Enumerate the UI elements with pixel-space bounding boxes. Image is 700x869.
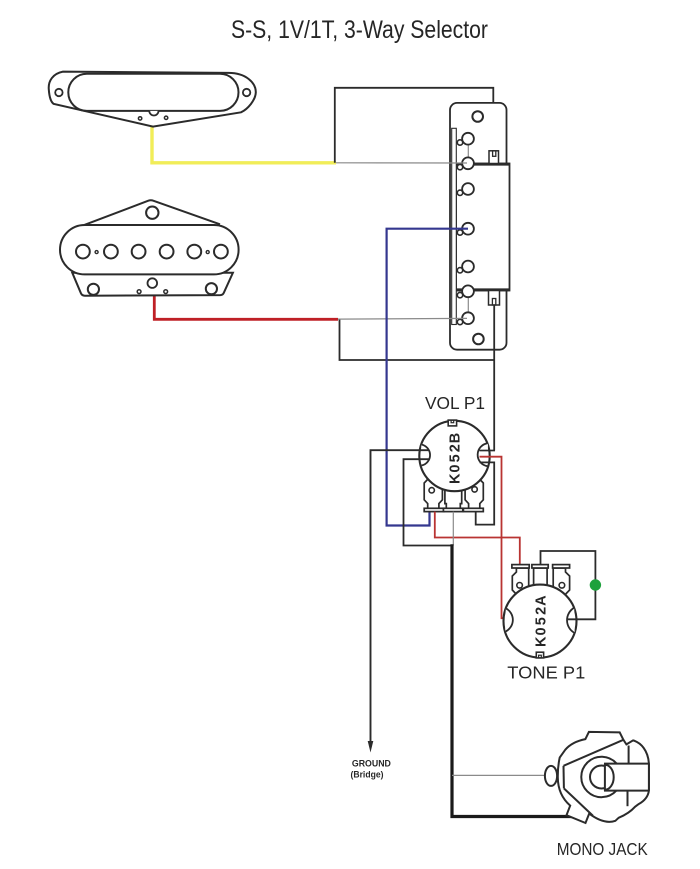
svg-text:K: K	[534, 636, 550, 647]
bridge pickup pole 6	[214, 245, 228, 259]
bridge pickup screw hole left	[88, 284, 99, 295]
jack inner wedge bottom diagonal	[564, 788, 593, 815]
neck pickup center notch	[149, 111, 158, 116]
TONE pot lug left tip bar	[512, 565, 529, 568]
jack tip contact oval	[545, 766, 557, 786]
TONE pot right notch	[567, 608, 575, 633]
jack barrel end	[605, 765, 614, 790]
selector switch bottom terminal tab	[489, 291, 500, 306]
selector switch lug 1	[462, 133, 474, 145]
svg-text:0: 0	[448, 465, 464, 473]
TONE pot body circle	[504, 585, 577, 658]
selector switch body	[456, 164, 510, 291]
VOL pot lug 2	[445, 478, 462, 508]
svg-text:2: 2	[534, 607, 550, 615]
VOL pot right notch top line	[480, 450, 496, 452]
wire red B (vol lug1 to tone lug left)	[435, 512, 520, 566]
TONE pot lug right	[553, 568, 569, 595]
selector switch lug 4	[462, 223, 474, 235]
selector switch lug 3	[462, 183, 474, 195]
VOL pot lug 1 tip bar	[424, 508, 444, 511]
selector switch lug rail	[452, 128, 457, 324]
svg-text:K: K	[448, 473, 464, 484]
VOL pot lug 3 tip bar	[463, 508, 483, 511]
svg-text:2: 2	[448, 444, 464, 452]
jumper wire lug1 to lug2	[467, 139, 469, 164]
VOL pot lug 2 tip bar	[443, 508, 462, 511]
selector switch lug 5	[462, 261, 474, 273]
bridge pickup pole 4	[160, 245, 174, 259]
jack C washer outer arc	[581, 757, 616, 797]
svg-text:5: 5	[534, 617, 550, 625]
bridge pickup cover	[60, 225, 239, 274]
selector switch top mounting hole	[472, 111, 483, 122]
wire grey yellow-junction to lug 2	[336, 162, 467, 164]
selector switch body top edge	[456, 163, 510, 166]
jumper wire lug6 to lug7	[467, 291, 469, 318]
bridge pickup bottom plate	[72, 273, 233, 296]
selector switch lug stems	[457, 140, 462, 325]
svg-text:GROUND: GROUND	[352, 759, 391, 769]
wire thick black ground (to jack sleeve tab)	[452, 544, 572, 816]
selector switch body bottom edge	[456, 288, 510, 291]
wire black ground link (red junction down and right to switch bottom wire)	[340, 319, 495, 360]
TONE pot lug left	[512, 568, 528, 595]
wire grey red-junction to lug 7	[338, 317, 467, 320]
selector switch top terminal tab	[489, 151, 499, 164]
TONE pot value label A250K	[534, 595, 550, 647]
VOL pot body circle	[419, 421, 489, 491]
bridge pickup screw hole right	[206, 283, 217, 294]
bridge pickup pole 3	[132, 245, 146, 259]
bridge pickup pole 1	[76, 245, 90, 259]
VOL pot lug 3	[465, 478, 483, 508]
svg-text:MONO JACK: MONO JACK	[557, 839, 648, 859]
svg-text:S-S, 1V/1T, 3-Way Selector: S-S, 1V/1T, 3-Way Selector	[231, 16, 488, 44]
capacitor (green)	[590, 579, 601, 590]
svg-text:0: 0	[534, 627, 550, 635]
wire black hot loop top (yellow junction up and over to switch top tab)	[335, 88, 494, 163]
wire red A (vol right notch to tone left notch)	[480, 457, 513, 619]
bridge pickup pole 5	[187, 245, 201, 259]
bridge pickup small dot left	[95, 251, 98, 254]
VOL pot top locating tab	[448, 420, 456, 426]
wire red (bridge pickup to switch)	[154, 294, 338, 319]
TONE pot lug right tip bar	[553, 565, 570, 568]
neck pickup baseplate	[49, 72, 256, 127]
bridge pickup small dot right	[206, 251, 209, 254]
svg-text:B: B	[448, 433, 464, 443]
selector switch lug 7	[462, 312, 474, 324]
jack inner wedge top diagonal	[564, 740, 624, 766]
wire blue (switch lug 4 to vol lug 1)	[387, 229, 468, 526]
bridge pickup tiny hole left	[137, 290, 141, 294]
TONE pot lug middle	[534, 568, 548, 592]
VOL pot right notch	[478, 443, 488, 466]
wire grey (to jack tip contact)	[452, 774, 546, 776]
bridge pickup mounting roof	[84, 200, 220, 225]
svg-text:VOL P1: VOL P1	[425, 393, 485, 413]
svg-text:5: 5	[448, 454, 464, 462]
selector switch base plate	[450, 103, 507, 350]
VOL pot left notch bottom line (casing ground to thick wire)	[404, 459, 452, 545]
bridge pickup pole 2	[104, 245, 118, 259]
selector switch bottom mounting hole	[473, 334, 484, 345]
svg-text:TONE P1: TONE P1	[507, 663, 585, 683]
neck pickup small hole left	[138, 117, 141, 120]
jack right vertical top	[628, 746, 630, 764]
VOL pot value label B250K	[448, 433, 464, 484]
VOL pot left notch top line + ground bridge wire	[371, 450, 429, 741]
wire black (switch bottom tab down to vol right notch)	[493, 305, 495, 451]
jack inner wedge left edge	[563, 766, 565, 789]
wire yellow (neck pickup to switch)	[152, 121, 336, 163]
TONE pot lug middle tip bar	[532, 565, 548, 568]
VOL pot right notch bottom line + hook to lug 3	[476, 462, 495, 524]
tone cap wire (middle lug up over to right notch)	[541, 551, 596, 619]
bridge pickup tiny hole right	[164, 290, 168, 294]
neck pickup cover	[68, 74, 238, 111]
svg-text:(Bridge): (Bridge)	[351, 769, 384, 779]
bridge pickup center hole	[148, 278, 158, 288]
jack right vertical bottom	[627, 791, 629, 806]
TONE pot bottom locating tab	[536, 652, 543, 658]
neck pickup left screw hole	[55, 89, 62, 96]
VOL pot left notch	[421, 445, 430, 466]
wire grey vol lug2 down	[452, 512, 454, 546]
mono jack body outline	[558, 732, 649, 823]
jack C washer inner hole	[590, 766, 613, 789]
bridge pickup roof screw hole	[146, 207, 158, 219]
VOL pot lug 1	[424, 478, 442, 508]
jack sleeve rectangle	[604, 764, 648, 791]
ground arrow head	[368, 741, 374, 753]
TONE pot left notch	[505, 608, 513, 631]
neck pickup small hole right	[164, 116, 167, 119]
selector switch lug 6	[462, 285, 474, 297]
svg-text:A: A	[534, 595, 550, 606]
neck pickup right screw hole	[243, 89, 250, 96]
selector switch lug 2	[462, 157, 474, 169]
